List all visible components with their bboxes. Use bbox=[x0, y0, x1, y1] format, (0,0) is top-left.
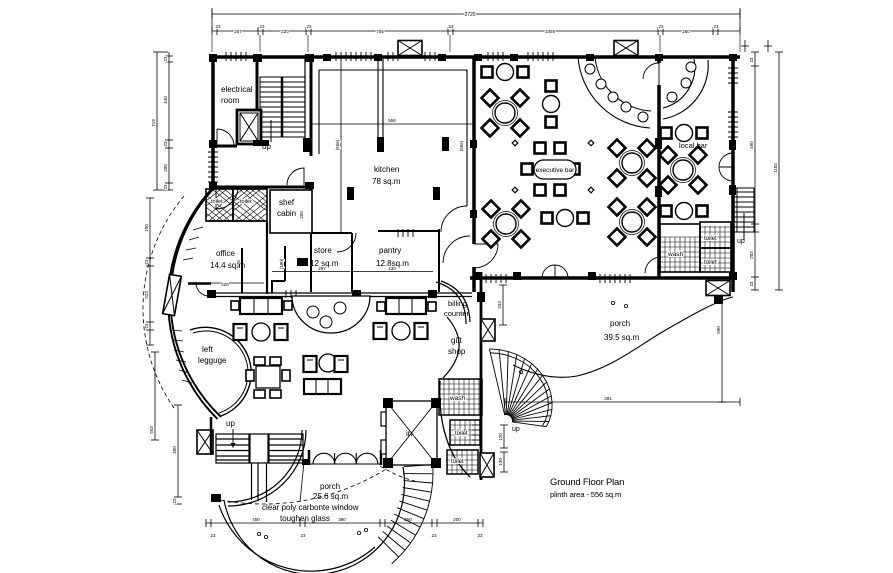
svg-text:260: 260 bbox=[682, 29, 690, 34]
left luggage room bbox=[190, 327, 251, 416]
shef cabin bbox=[270, 190, 312, 233]
svg-text:room: room bbox=[221, 96, 240, 105]
svg-text:(180): (180) bbox=[279, 258, 284, 269]
svg-text:23: 23 bbox=[306, 24, 312, 29]
svg-text:719: 719 bbox=[151, 119, 156, 127]
svg-text:1102: 1102 bbox=[773, 163, 778, 173]
door dining west bbox=[474, 244, 498, 268]
svg-text:in: in bbox=[406, 429, 412, 438]
dim 391 porch bbox=[505, 398, 740, 406]
curved left boundary bbox=[440, 381, 470, 477]
svg-text:490: 490 bbox=[749, 141, 754, 149]
svg-text:120: 120 bbox=[498, 433, 503, 441]
kitchen counter outline bbox=[319, 70, 467, 206]
store walls bbox=[311, 232, 352, 234]
svg-text:wash: wash bbox=[667, 251, 684, 258]
dim lower-left col bbox=[146, 198, 182, 504]
svg-text:toughen glass: toughen glass bbox=[280, 514, 330, 523]
svg-text:23: 23 bbox=[259, 24, 265, 29]
svg-text:23: 23 bbox=[431, 533, 437, 538]
kitchen inner dim vertical bbox=[340, 60, 342, 234]
svg-text:shop: shop bbox=[448, 347, 466, 356]
lounge sofa set B bbox=[374, 298, 437, 340]
svg-text:electrical: electrical bbox=[221, 85, 253, 94]
trio table top-left bbox=[482, 64, 529, 81]
svg-text:200: 200 bbox=[453, 517, 461, 522]
svg-text:23: 23 bbox=[215, 24, 221, 29]
svg-text:cabin: cabin bbox=[277, 209, 296, 218]
buffet arc left bbox=[578, 57, 651, 128]
gift shop arc bbox=[443, 317, 459, 378]
svg-text:220: 220 bbox=[281, 29, 289, 34]
svg-text:297: 297 bbox=[318, 266, 326, 271]
trio bottom center bbox=[542, 210, 589, 227]
svg-text:porch: porch bbox=[610, 319, 630, 328]
wall dining-localbar bbox=[657, 85, 661, 277]
svg-text:toilet: toilet bbox=[455, 431, 468, 437]
door right wall double bbox=[719, 153, 733, 181]
dining set C bbox=[609, 140, 656, 187]
buffet stools bbox=[585, 64, 648, 122]
door dining-localbar bbox=[643, 63, 659, 85]
wall stair east bbox=[304, 55, 306, 150]
svg-text:porch: porch bbox=[320, 482, 340, 491]
wall columns bbox=[207, 54, 737, 302]
svg-text:left: left bbox=[202, 345, 213, 354]
door office corridor bbox=[216, 187, 238, 209]
svg-text:23: 23 bbox=[477, 533, 483, 538]
svg-text:legguge: legguge bbox=[198, 356, 227, 365]
kitchen columns bbox=[377, 137, 384, 152]
svg-text:(656): (656) bbox=[459, 140, 464, 151]
svg-text:gift: gift bbox=[451, 336, 462, 345]
svg-text:local bar: local bar bbox=[679, 141, 708, 150]
svg-text:23: 23 bbox=[448, 24, 454, 29]
elevator bbox=[237, 110, 261, 144]
double door dining bottom bbox=[542, 265, 568, 278]
svg-text:200: 200 bbox=[163, 164, 168, 172]
dim left 719 total bbox=[153, 52, 168, 190]
door kitchen-pantry bbox=[441, 206, 467, 232]
svg-text:toilet: toilet bbox=[704, 236, 717, 242]
dims near spiral bbox=[499, 285, 508, 472]
svg-text:23: 23 bbox=[658, 24, 664, 29]
door corridor bbox=[287, 168, 304, 185]
svg-text:233: 233 bbox=[497, 301, 502, 309]
svg-text:23: 23 bbox=[749, 57, 754, 63]
buffet arc right bbox=[663, 59, 708, 119]
kitchen dim 556 bbox=[311, 123, 474, 125]
wall elec room bottom bbox=[211, 145, 237, 148]
billing counter arc bbox=[436, 282, 466, 324]
reception semicircle bbox=[292, 296, 370, 333]
svg-text:toilet: toilet bbox=[704, 260, 717, 266]
svg-text:23: 23 bbox=[163, 141, 168, 147]
wall dining bottom bbox=[470, 276, 735, 280]
office walls bbox=[266, 221, 268, 294]
svg-text:400: 400 bbox=[172, 446, 177, 454]
svg-text:203: 203 bbox=[749, 251, 754, 259]
entrance steps bbox=[378, 465, 433, 564]
svg-text:207: 207 bbox=[234, 29, 242, 34]
svg-text:23: 23 bbox=[172, 498, 177, 504]
dining set A bbox=[482, 90, 529, 137]
wall elec room east bbox=[256, 55, 259, 110]
dim overall 2720 bbox=[212, 8, 740, 30]
svg-text:590: 590 bbox=[716, 326, 721, 334]
svg-text:390: 390 bbox=[338, 517, 346, 522]
wall kitchen west bbox=[310, 55, 313, 156]
wall lounge west lower bbox=[210, 417, 213, 455]
kitchen partition wall bbox=[378, 58, 383, 150]
svg-text:440: 440 bbox=[163, 96, 168, 104]
svg-text:430: 430 bbox=[388, 266, 396, 271]
toilet rooms upper-left bbox=[206, 189, 267, 221]
svg-text:clear poly carbonte window: clear poly carbonte window bbox=[262, 503, 359, 512]
svg-text:plinth area - 556 sq.m: plinth area - 556 sq.m bbox=[550, 490, 621, 499]
door kitchen/store bbox=[337, 233, 356, 252]
svg-text:200: 200 bbox=[299, 211, 304, 219]
stair right ext bbox=[733, 188, 754, 240]
wall top bbox=[211, 55, 740, 59]
svg-text:store: store bbox=[314, 246, 332, 255]
trio vertical bbox=[543, 81, 560, 128]
svg-text:23: 23 bbox=[713, 24, 719, 29]
arch window leaves bbox=[313, 453, 378, 464]
svg-text:toilet: toilet bbox=[211, 199, 223, 205]
dining bottom wall windows bbox=[486, 274, 506, 283]
svg-text:2720: 2720 bbox=[464, 12, 475, 18]
svg-text:pantry: pantry bbox=[379, 246, 401, 255]
lounge dining table 6 chairs bbox=[246, 357, 290, 398]
svg-text:503: 503 bbox=[149, 426, 154, 434]
office dim 420 bbox=[203, 282, 264, 284]
svg-text:23: 23 bbox=[749, 281, 754, 287]
svg-text:up: up bbox=[512, 426, 520, 433]
pantry walls bbox=[378, 230, 439, 232]
svg-text:23: 23 bbox=[300, 533, 306, 538]
curved wall window ticks bbox=[172, 227, 203, 383]
svg-text:up: up bbox=[737, 238, 745, 245]
grid hatch bbox=[439, 379, 482, 474]
pantry top windows bbox=[398, 229, 413, 237]
svg-text:1059: 1059 bbox=[545, 29, 556, 34]
svg-text:14.4 sq.m: 14.4 sq.m bbox=[210, 261, 245, 270]
svg-text:706: 706 bbox=[376, 29, 384, 34]
svg-text:executive bar: executive bar bbox=[536, 167, 575, 174]
right wall windows bbox=[728, 68, 738, 83]
door elec room bbox=[217, 129, 234, 146]
svg-text:counter: counter bbox=[444, 309, 470, 318]
lounge bottom wall + arch windows bbox=[308, 450, 311, 465]
svg-text:130: 130 bbox=[498, 458, 503, 466]
wall left upper bbox=[211, 55, 215, 188]
svg-text:556: 556 bbox=[388, 118, 396, 123]
svg-text:450: 450 bbox=[252, 517, 260, 522]
dashed inner porch bbox=[220, 468, 388, 504]
svg-text:office: office bbox=[216, 249, 236, 258]
svg-text:23: 23 bbox=[144, 323, 149, 329]
curved west wall bbox=[170, 186, 221, 417]
wall gift shop east bbox=[480, 272, 483, 480]
lounge top wall windows bbox=[286, 290, 296, 298]
lounge center set bbox=[304, 354, 348, 394]
wall lounge top bbox=[210, 292, 472, 294]
xbox lounge stair bbox=[197, 430, 213, 454]
lounge sofa set A bbox=[231, 298, 292, 341]
svg-text:190: 190 bbox=[144, 224, 149, 232]
left wall window bbox=[208, 152, 218, 182]
top wall windows bbox=[226, 52, 246, 61]
dim left col2 bbox=[165, 52, 173, 190]
dining set D bbox=[609, 199, 656, 246]
wall stub west lounge bbox=[188, 282, 211, 285]
wall dining west bbox=[472, 57, 476, 244]
dashed outer arc bbox=[143, 196, 184, 408]
svg-text:billing: billing bbox=[448, 299, 467, 308]
small stair in block bbox=[472, 420, 482, 440]
svg-text:25.6 sq.m: 25.6 sq.m bbox=[313, 492, 348, 501]
svg-text:23: 23 bbox=[210, 533, 216, 538]
wash grid hatch bbox=[660, 226, 731, 272]
svg-text:toilet: toilet bbox=[451, 459, 464, 465]
toilet hatch bbox=[206, 189, 267, 221]
window xbox on curve bbox=[163, 274, 182, 315]
svg-text:420: 420 bbox=[221, 282, 229, 287]
executive bar table bbox=[512, 140, 594, 195]
wall corridor bottom bbox=[211, 186, 311, 189]
dining set B bbox=[483, 201, 530, 248]
svg-text:78 sq.m: 78 sq.m bbox=[372, 177, 401, 186]
curved window bottom-left bbox=[228, 430, 306, 506]
svg-text:shef: shef bbox=[279, 198, 295, 207]
dim 590 right porch bbox=[718, 283, 726, 402]
svg-text:(656): (656) bbox=[335, 139, 340, 150]
svg-text:wash: wash bbox=[449, 395, 466, 402]
stair U1 treads bbox=[260, 77, 305, 142]
svg-text:23: 23 bbox=[144, 259, 149, 265]
svg-text:39.5 sq.m: 39.5 sq.m bbox=[604, 333, 639, 342]
svg-text:391: 391 bbox=[604, 396, 612, 401]
xbox on wall bbox=[481, 319, 495, 341]
svg-text:toilet: toilet bbox=[240, 199, 252, 205]
svg-text:23: 23 bbox=[163, 56, 168, 62]
wall right bbox=[731, 55, 735, 292]
svg-text:Ground Floor Plan: Ground Floor Plan bbox=[550, 477, 624, 488]
svg-text:kitchen: kitchen bbox=[374, 165, 399, 174]
svg-text:up: up bbox=[226, 419, 235, 428]
svg-text:323: 323 bbox=[144, 291, 149, 299]
dim row 2 bbox=[212, 27, 740, 52]
svg-text:23: 23 bbox=[163, 184, 168, 190]
door office-lounge bbox=[196, 283, 209, 296]
